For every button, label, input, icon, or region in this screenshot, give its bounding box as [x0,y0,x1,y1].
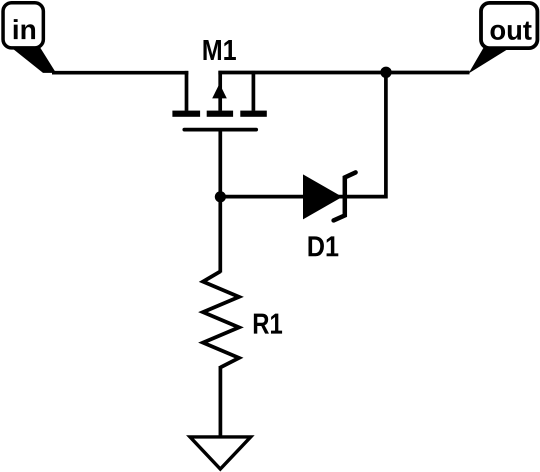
transistor M1 [172,71,266,130]
wire top right [218,71,469,75]
node in [3,3,43,48]
diode D1 [303,172,356,220]
wire out tail [469,46,513,74]
label R1 [254,314,282,334]
ground [190,437,251,469]
resistor R1 [203,271,239,367]
label D1 [308,236,338,256]
wire gate down to node [218,130,222,273]
wire in tail [10,47,56,73]
wire in to M1 source [52,71,188,75]
node out [481,3,537,48]
node out junction [380,67,391,78]
wire R1 to ground [219,366,223,438]
label M1 [203,40,235,60]
wire node to D1 [220,195,386,199]
wire D1 to out node [384,73,388,199]
node gate junction [215,191,226,202]
